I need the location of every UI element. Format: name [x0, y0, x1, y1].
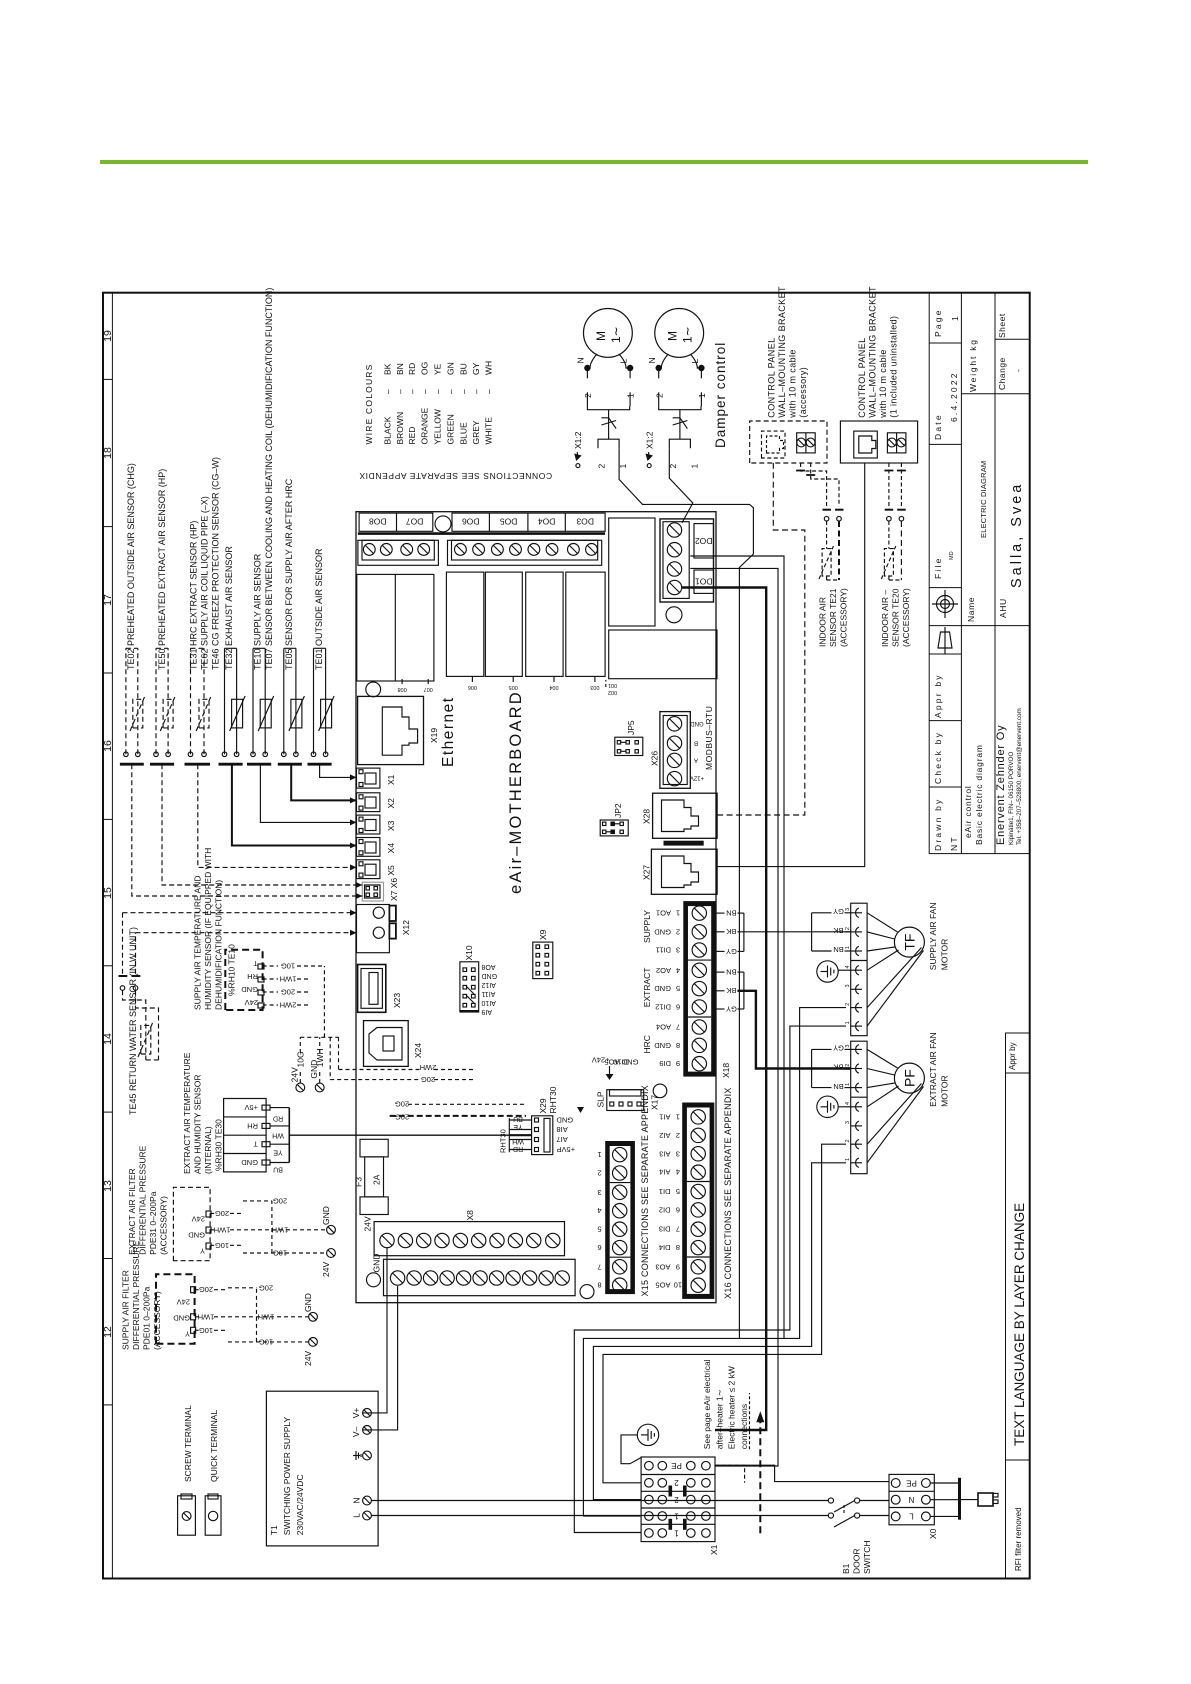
svg-text:9: 9: [676, 1059, 680, 1068]
svg-text:Page: Page: [933, 308, 943, 337]
svg-text:AI1: AI1: [659, 1112, 670, 1121]
svg-text:AI9: AI9: [481, 1008, 492, 1015]
svg-text:10G: 10G: [281, 962, 295, 971]
svg-text:OG: OG: [420, 362, 430, 375]
svg-text:7: 7: [676, 1023, 680, 1032]
svg-text:SLP: SLP: [596, 1091, 606, 1107]
column ticks: [103, 378, 112, 380]
svg-text:AO3: AO3: [655, 1262, 670, 1271]
svg-text:AI4: AI4: [659, 1168, 670, 1177]
svg-text:230VAC/24VDC: 230VAC/24VDC: [295, 1474, 305, 1535]
svg-text:24V: 24V: [192, 1215, 205, 1224]
svg-text:1: 1: [950, 314, 960, 321]
svg-text:AI11: AI11: [481, 990, 495, 997]
svg-text:2: 2: [845, 1064, 851, 1067]
svg-text:QUICK TERMINAL: QUICK TERMINAL: [209, 1410, 219, 1482]
svg-text:AHU: AHU: [998, 598, 1008, 618]
svg-text:TE05 SENSOR FOR SUPPLY AIR AFT: TE05 SENSOR FOR SUPPLY AIR AFTER HRC: [284, 478, 294, 670]
X18 terminal block: [683, 901, 716, 1077]
svg-text:1: 1: [845, 946, 851, 949]
X18 extract pair bracket: [716, 972, 744, 1009]
svg-text:Weight kg: Weight kg: [968, 338, 978, 392]
X1 terminal block: [641, 1457, 715, 1542]
PF fan connector strip: [851, 1041, 867, 1174]
svg-text:connections: connections: [739, 1404, 749, 1449]
svg-text:YE: YE: [433, 363, 443, 375]
svg-text:EXTRACT: EXTRACT: [642, 968, 652, 1008]
svg-text:DI12: DI12: [655, 1003, 671, 1012]
svg-text:AO5: AO5: [655, 1281, 670, 1290]
svg-text:2: 2: [845, 1139, 851, 1142]
svg-text:Kipinätie1, FIN– 06150 PORVOO: Kipinätie1, FIN– 06150 PORVOO: [1008, 752, 1015, 845]
svg-text:001: 001: [608, 682, 617, 688]
svg-text:20G: 20G: [421, 1075, 435, 1084]
svg-text:EXTRACT AIR FAN: EXTRACT AIR FAN: [928, 1032, 938, 1106]
svg-text:3: 3: [845, 1121, 851, 1124]
svg-text:ELECTRIC DIAGRAM: ELECTRIC DIAGRAM: [979, 461, 988, 538]
svg-text:BN: BN: [395, 363, 405, 375]
bottom-left strip: [1006, 1033, 1030, 1579]
svg-text:5: 5: [597, 1225, 601, 1234]
control panel box 1 (dashed): [750, 421, 827, 463]
svg-text:GN: GN: [446, 362, 456, 375]
X8 lower row: [384, 1259, 576, 1295]
svg-text:MD: MD: [949, 551, 955, 560]
svg-text:003: 003: [590, 684, 599, 690]
svg-text:TE31 HRC EXTRACT SENSOR (HP): TE31 HRC EXTRACT SENSOR (HP): [189, 521, 199, 670]
svg-text:X1: X1: [709, 1544, 719, 1555]
svg-text:X7 X6: X7 X6: [389, 878, 399, 901]
svg-text:5: 5: [676, 984, 680, 993]
relay boxes: [357, 572, 605, 681]
svg-text:Tel. +358–207–528800, enervent: Tel. +358–207–528800, enervent@enervent.…: [1016, 708, 1023, 845]
svg-text:4: 4: [676, 966, 680, 975]
svg-text:(ACCESSORY): (ACCESSORY): [152, 1291, 162, 1350]
damper motor M2: [655, 309, 704, 369]
svg-text:AO1: AO1: [656, 909, 671, 918]
svg-text:N: N: [352, 1497, 362, 1503]
svg-text:WH: WH: [272, 1132, 284, 1139]
svg-text:–: –: [433, 389, 443, 394]
svg-text:(ACCESSORY): (ACCESSORY): [901, 588, 911, 647]
svg-text:X4: X4: [386, 843, 396, 854]
svg-text:DO7: DO7: [406, 517, 424, 527]
svg-text:DI2: DI2: [659, 1205, 671, 1214]
svg-text:X1:2: X1:2: [644, 431, 654, 449]
svg-text:20G: 20G: [281, 988, 295, 997]
svg-text:AI3: AI3: [659, 1149, 670, 1158]
X10 header: [460, 962, 479, 1012]
svg-text:5: 5: [676, 1187, 680, 1196]
svg-text:13: 13: [102, 1180, 114, 1192]
svg-text:AND HUMIDITY SENSOR: AND HUMIDITY SENSOR: [193, 1075, 203, 1175]
svg-text:GND: GND: [482, 972, 498, 979]
PF motor: [894, 1063, 924, 1093]
svg-text:8: 8: [597, 1281, 601, 1290]
svg-text:BN: BN: [726, 968, 736, 977]
X26 modbus: [660, 712, 690, 789]
RHT30 bracket above X29: [509, 1118, 531, 1152]
svg-text:BU: BU: [458, 363, 468, 375]
svg-text:2: 2: [674, 1478, 679, 1487]
svg-text:GY: GY: [833, 907, 844, 916]
svg-text:1: 1: [674, 1528, 679, 1537]
svg-text:See page eAir electrical: See page eAir electrical: [702, 1359, 712, 1449]
svg-text:X28: X28: [642, 809, 652, 824]
svg-text:1∼: 1∼: [609, 326, 623, 343]
svg-text:1: 1: [676, 1112, 680, 1121]
svg-text:JP2: JP2: [613, 803, 623, 818]
extract BK thick wire to PF: [738, 991, 851, 1069]
svg-text:(accessory): (accessory): [798, 367, 808, 418]
TE02 dashed sensor: [126, 648, 145, 754]
svg-text:4: 4: [676, 1168, 680, 1177]
X6 X7 connector: [362, 882, 383, 901]
svg-text:BN: BN: [726, 909, 736, 918]
svg-text:DO5: DO5: [500, 517, 518, 527]
svg-text:6: 6: [676, 1003, 680, 1012]
F3 fuse: [360, 1139, 388, 1214]
svg-text:-: -: [1013, 369, 1023, 372]
svg-text:002: 002: [608, 689, 617, 695]
svg-text:1WH: 1WH: [280, 975, 297, 984]
svg-text:TE01 OUTSIDE AIR SENSOR: TE01 OUTSIDE AIR SENSOR: [314, 548, 324, 670]
svg-text:15: 15: [102, 887, 114, 899]
mains plug: [960, 1493, 999, 1506]
svg-text:2: 2: [676, 927, 680, 936]
svg-text:6: 6: [676, 1205, 680, 1214]
svg-text:7: 7: [676, 1225, 680, 1234]
svg-text:CONTROL PANEL: CONTROL PANEL: [857, 337, 867, 417]
svg-text:X1: X1: [386, 774, 396, 785]
svg-text:4: 4: [597, 1206, 601, 1215]
svg-text:+12V: +12V: [690, 775, 704, 781]
frame outer: [103, 293, 1030, 1579]
JP2: [600, 820, 628, 836]
X24 usb-b: [364, 1021, 409, 1067]
svg-text:005: 005: [509, 684, 518, 690]
svg-text:1: 1: [845, 1083, 851, 1086]
svg-text:CONNECTIONS SEE SEPARATE AP: CONNECTIONS SEE SEPARATE APPENDIX: [359, 471, 552, 481]
svg-text:GY: GY: [471, 362, 481, 375]
earth near X1: [637, 1424, 658, 1445]
svg-text:10G: 10G: [273, 1249, 287, 1258]
svg-text:1WH: 1WH: [214, 1225, 231, 1234]
N / L wires to door switch: [371, 1501, 828, 1516]
svg-text:2WH: 2WH: [280, 1001, 297, 1010]
svg-text:2WH: 2WH: [420, 1063, 437, 1072]
svg-text:AI12: AI12: [481, 981, 496, 988]
tiny relay coil labels: [398, 684, 600, 692]
svg-text:8: 8: [676, 1243, 680, 1252]
svg-text:AO2: AO2: [656, 966, 671, 975]
svg-text:(ACCESSORY): (ACCESSORY): [159, 1196, 169, 1255]
T1 switching power supply: [266, 1391, 378, 1546]
svg-text:24V: 24V: [177, 1298, 190, 1307]
svg-text:GND: GND: [321, 1206, 331, 1225]
svg-text:Check by: Check by: [933, 731, 943, 784]
svg-text:20G: 20G: [259, 1283, 273, 1292]
svg-text:AI8: AI8: [557, 1125, 568, 1134]
svg-text:1WH: 1WH: [258, 1312, 275, 1321]
svg-text:BN: BN: [833, 1082, 843, 1091]
%RH30 TE30 connector: [224, 1099, 270, 1172]
svg-text:24V: 24V: [363, 1216, 373, 1231]
svg-text:8: 8: [676, 1041, 680, 1050]
svg-text:DIFFERENTIAL PRESSURE: DIFFERENTIAL PRESSURE: [131, 1240, 141, 1350]
DO1 DO2 block: [660, 519, 714, 602]
wire arrows into connectors: [350, 774, 362, 935]
svg-text:2: 2: [583, 393, 593, 398]
damper wires to DO1/DO2: [619, 448, 753, 1338]
svg-text:GY: GY: [726, 947, 737, 956]
svg-text:WH: WH: [512, 1138, 524, 1145]
X27 solid wire to control panel 2: [717, 463, 865, 867]
X1 PE wire to X0 PE: [715, 1465, 889, 1481]
JP5: [615, 737, 643, 755]
svg-text:Change: Change: [997, 357, 1007, 390]
svg-text:SENSOR TE20: SENSOR TE20: [891, 588, 901, 647]
svg-text:N: N: [908, 1495, 914, 1504]
svg-text:HRC: HRC: [642, 1035, 652, 1053]
svg-text:JP5: JP5: [626, 720, 636, 735]
X29 RHT30 connector: [532, 1116, 553, 1155]
indoor air sensor TE21: [801, 463, 844, 580]
svg-text:1: 1: [674, 1511, 679, 1520]
svg-text:X24: X24: [413, 1043, 423, 1058]
svg-text:GND: GND: [621, 1058, 638, 1067]
title symbol circle: [932, 590, 958, 618]
svg-text:B1: B1: [841, 1563, 851, 1574]
svg-text:1: 1: [845, 1158, 851, 1161]
svg-text:SUPPLY AIR TEMPERATURE AND: SUPPLY AIR TEMPERATURE AND: [193, 876, 203, 1010]
24V GND screw cluster near RH10: [296, 1083, 305, 1092]
svg-text:Enervent Zehnder Oy: Enervent Zehnder Oy: [995, 725, 1007, 845]
svg-text:after–heater 1∼: after–heater 1∼: [714, 1389, 724, 1449]
svg-text:%RH30 TE30: %RH30 TE30: [214, 1119, 224, 1171]
svg-text:–: –: [458, 389, 468, 394]
svg-text:L: L: [352, 1513, 362, 1518]
X0 terminal: [889, 1474, 934, 1524]
svg-text:HUMIDITY SENSOR (IF EQUIPPE: HUMIDITY SENSOR (IF EQUIPPED WITH: [203, 848, 213, 1010]
20G dashed wires to X29: [390, 1104, 526, 1116]
svg-text:GND: GND: [241, 1158, 258, 1167]
svg-text:WALL–MOUNTING BRACKET: WALL–MOUNTING BRACKET: [777, 286, 787, 418]
eAir motherboard outline: [356, 512, 716, 1303]
svg-text:PF: PF: [902, 1069, 918, 1087]
svg-text:PDE31 0–200Pa: PDE31 0–200Pa: [148, 1191, 158, 1255]
svg-text:Date: Date: [933, 413, 943, 440]
X23 usb-a: [358, 965, 386, 1013]
X27 rj45: [651, 849, 717, 894]
svg-text:9: 9: [676, 1262, 680, 1271]
X8 upper row: [374, 1222, 564, 1256]
svg-text:SENSOR TE21: SENSOR TE21: [828, 588, 838, 647]
svg-text:1: 1: [689, 464, 699, 469]
X1 wires up to fans (nested): [574, 1008, 846, 1533]
svg-text:TE02 PREHEATED OUTSIDE AIR SEN: TE02 PREHEATED OUTSIDE AIR SENSOR (CHG): [126, 463, 136, 670]
svg-text:RHT30: RHT30: [499, 1129, 508, 1153]
svg-text:2: 2: [674, 1495, 679, 1504]
svg-text:DO8: DO8: [369, 517, 387, 527]
DO circle between groups: [435, 516, 451, 532]
svg-text:DO2: DO2: [695, 536, 713, 546]
thick line under DO labels: [358, 532, 605, 535]
svg-text:DO6: DO6: [462, 517, 480, 527]
See page note: [702, 1359, 749, 1449]
svg-text:2: 2: [597, 1169, 601, 1178]
svg-text:YE: YE: [513, 1123, 523, 1130]
X1..X5 connectors: [357, 768, 380, 879]
svg-text:BLACK: BLACK: [382, 416, 392, 444]
svg-text:6: 6: [597, 1243, 601, 1252]
svg-text:DIFFERENTIAL PRESSURE: DIFFERENTIAL PRESSURE: [138, 1145, 148, 1255]
svg-text:TE45 RETURN WATER SENSOR (IN W: TE45 RETURN WATER SENSOR (IN W UNIT): [128, 927, 138, 1115]
svg-text:4: 4: [845, 1102, 851, 1105]
svg-text:GND: GND: [654, 1041, 671, 1050]
svg-text:File: File: [933, 557, 943, 580]
svg-text:X5: X5: [386, 865, 396, 876]
svg-text:AI10: AI10: [481, 999, 496, 1006]
X15 terminal block: [605, 1141, 635, 1294]
svg-text:CONTROL PANEL: CONTROL PANEL: [767, 337, 777, 417]
svg-text:SCREW TERMINAL: SCREW TERMINAL: [183, 1405, 193, 1482]
frame inner top band line: [111, 293, 113, 1579]
svg-text:006: 006: [468, 684, 477, 690]
control panel box 2 (solid): [840, 421, 917, 463]
svg-text:L: L: [690, 359, 700, 364]
svg-text:2: 2: [597, 464, 607, 469]
svg-text:2A: 2A: [372, 1174, 382, 1185]
svg-text:Y: Y: [200, 1247, 205, 1256]
PF earth: [817, 1096, 838, 1117]
svg-text:24V: 24V: [245, 998, 258, 1007]
svg-text:Name: Name: [966, 597, 976, 622]
svg-text:B: B: [694, 739, 698, 745]
svg-text:(INTERNAL): (INTERNAL): [203, 1126, 213, 1174]
svg-text:–: –: [395, 389, 405, 394]
TF fan connector strip: [851, 903, 867, 1035]
svg-text:YELLOW: YELLOW: [433, 409, 443, 444]
TE05 sensor: [283, 648, 285, 754]
sensor labels: [126, 288, 324, 670]
svg-text:X15 CONNECTIONS SEE SEPARATE A: X15 CONNECTIONS SEE SEPARATE APPENDIX: [640, 1085, 650, 1296]
svg-text:L: L: [909, 1512, 914, 1521]
svg-text:AI2: AI2: [659, 1131, 670, 1140]
svg-text:Basic electric diagram: Basic electric diagram: [974, 744, 984, 845]
PDE31 cluster: [173, 1187, 210, 1260]
svg-text:24V: 24V: [303, 1351, 313, 1366]
svg-text:SUPPLY AIR FILTER: SUPPLY AIR FILTER: [121, 1270, 131, 1350]
screw terminal / quick terminal legend: [183, 1405, 219, 1482]
B1 door switch: [828, 1498, 889, 1527]
svg-text:X8: X8: [465, 1210, 475, 1221]
svg-text:X16 CONNECTIONS SEE SEPARATE A: X16 CONNECTIONS SEE SEPARATE APPENDIX: [723, 1087, 733, 1298]
SLP connector: [607, 1090, 644, 1111]
X18 wire colour labels: [726, 909, 737, 1014]
svg-text:N: N: [647, 357, 657, 363]
svg-text:N: N: [576, 357, 586, 363]
svg-text:ORANGE: ORANGE: [420, 407, 430, 444]
svg-text:GND: GND: [654, 927, 671, 936]
DO screw terminal boxes: [358, 540, 602, 565]
svg-text:Drawn by: Drawn by: [933, 797, 943, 851]
svg-text:3: 3: [845, 1045, 851, 1048]
svg-text:BK: BK: [833, 1063, 843, 1072]
svg-text:X12: X12: [401, 920, 411, 935]
svg-text:–: –: [483, 389, 493, 394]
green header rule: [100, 160, 1088, 164]
svg-text:18: 18: [102, 447, 114, 459]
svg-text:10: 10: [674, 1281, 682, 1290]
svg-text:24V: 24V: [321, 1262, 331, 1277]
svg-text:DI9: DI9: [659, 1059, 671, 1068]
svg-text:BK: BK: [726, 986, 736, 995]
svg-text:TEXT LANGUAGE BY LAYER CHA: TEXT LANGUAGE BY LAYER CHANGE: [1012, 1203, 1027, 1446]
svg-text:GND: GND: [241, 985, 258, 994]
TE01 sensor: [313, 648, 315, 754]
X9 header: [533, 942, 553, 979]
svg-text:BU: BU: [273, 1166, 283, 1173]
svg-text:GND: GND: [690, 720, 704, 726]
svg-text:TE62 SUPPLY AIR COIL LIQUID PI: TE62 SUPPLY AIR COIL LIQUID PIPE (–X): [200, 496, 210, 670]
svg-text:004: 004: [549, 684, 558, 690]
svg-text:1WH: 1WH: [198, 1312, 215, 1321]
svg-text:DI1: DI1: [659, 1187, 671, 1196]
svg-text:BN: BN: [833, 945, 843, 954]
svg-text:AI7: AI7: [557, 1135, 568, 1144]
svg-text:Sheet: Sheet: [997, 313, 1007, 338]
svg-text:1: 1: [626, 393, 636, 398]
svg-text:–: –: [420, 389, 430, 394]
TE50 dashed sensor: [156, 648, 175, 754]
TF wire labels: [833, 907, 844, 954]
svg-text:(ACCESSORY): (ACCESSORY): [839, 588, 849, 647]
svg-text:X19: X19: [429, 728, 439, 743]
svg-text:4: 4: [845, 965, 851, 968]
svg-text:DI3: DI3: [659, 1225, 671, 1234]
svg-text:GREY: GREY: [471, 420, 481, 444]
svg-text:10G: 10G: [259, 1337, 273, 1346]
svg-text:BK: BK: [382, 363, 392, 375]
svg-text:Appr by: Appr by: [933, 673, 943, 718]
svg-text:BLUE: BLUE: [458, 422, 468, 445]
svg-text:Ethernet: Ethernet: [440, 696, 457, 767]
long wires from DO1/DO2: [682, 556, 784, 1466]
svg-text:PE: PE: [906, 1478, 917, 1487]
svg-text:GND: GND: [654, 984, 671, 993]
svg-text:–: –: [407, 389, 417, 394]
svg-text:SWITCH: SWITCH: [862, 1540, 872, 1574]
svg-text:2: 2: [654, 393, 664, 398]
svg-text:BK: BK: [833, 926, 843, 935]
PDE01 cluster: [156, 1274, 195, 1344]
svg-text:X23: X23: [392, 993, 402, 1008]
svg-text:RD: RD: [513, 1145, 523, 1152]
svg-text:L: L: [619, 359, 629, 364]
svg-text:007: 007: [424, 686, 433, 692]
svg-text:3: 3: [845, 984, 851, 987]
svg-text:10G: 10G: [215, 1241, 229, 1250]
svg-text:TE10 SUPPLY AIR SENSOR: TE10 SUPPLY AIR SENSOR: [253, 553, 263, 670]
svg-text:eAir control: eAir control: [963, 785, 973, 838]
svg-text:1: 1: [845, 1021, 851, 1024]
svg-text:DEHUMIDIFICATION FUNCTION): DEHUMIDIFICATION FUNCTION): [214, 880, 224, 1010]
svg-text:X0: X0: [928, 1528, 938, 1539]
svg-text:RH: RH: [247, 1121, 258, 1130]
relay boxes near DO1/DO2: [609, 518, 717, 679]
svg-text:008: 008: [398, 686, 407, 692]
